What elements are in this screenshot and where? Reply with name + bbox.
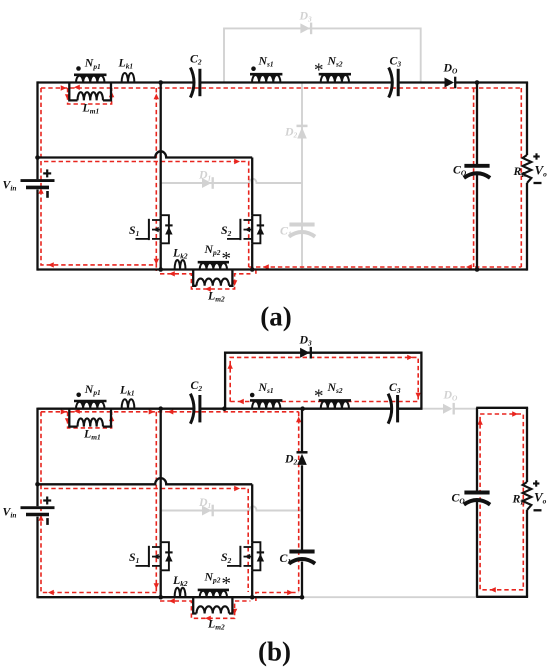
wire RL branch bottom (b): [526, 510, 528, 597]
red arrow right middle (a): [234, 159, 240, 164]
red loop D2 C1 branch (b): [298, 412, 300, 593]
wire Lm1 right leg (a): [103, 83, 111, 101]
wire Lm2 left leg (b): [193, 597, 196, 613]
red arrow left bottom (b): [48, 590, 54, 595]
svg-text:*: *: [314, 386, 324, 407]
red arrow right top (b): [61, 409, 67, 414]
wire C1 bottom (b): [301, 562, 303, 598]
red arrow down D3 box (b): [416, 393, 421, 399]
node Np1 phase dot (a): [76, 66, 81, 71]
red arrow up output (b): [477, 419, 482, 425]
wire gray Do rail (b): [421, 408, 443, 410]
battery Vin (b): [21, 506, 55, 509]
red arrow down Lm2 right (a): [232, 280, 237, 286]
wire gray D1 rail (b): [161, 506, 302, 510]
wire gray bottom rail (b): [303, 596, 476, 598]
wire Lm1 left leg (a): [69, 83, 77, 101]
wire middle rail with hop (b): [38, 478, 253, 484]
red arrow up D2 (b): [296, 417, 301, 423]
resistor RL (b): [523, 482, 532, 510]
wire S2 drain (a): [251, 158, 253, 216]
red arrow down Lm2 right (b): [232, 609, 237, 615]
red arrow up Lm1 (a): [109, 92, 114, 98]
resistor RL (a): [523, 155, 532, 183]
label - output (b): [534, 509, 542, 511]
svg-text:(a): (a): [260, 302, 291, 332]
capacitor C1 (a, inactive): [289, 223, 314, 227]
red arrow left bottom right (a): [263, 264, 269, 269]
svg-text:(b): (b): [258, 637, 291, 667]
red arrow up D3 box (b): [228, 363, 233, 369]
node C1 bottom junction (b): [300, 595, 305, 600]
red loop Lm2 path (a): [160, 274, 250, 289]
wire left branch bottom (a): [36, 190, 38, 271]
red arrow left Co bottom (a): [466, 264, 472, 269]
diode D2 (a, inactive): [297, 125, 308, 128]
red arrow right output (b): [512, 411, 518, 416]
red loop Lm1 box (a): [68, 88, 112, 104]
diode D3 (a, inactive): [300, 23, 310, 33]
wire gray D1 rail (a): [161, 179, 302, 183]
inductor Lk1 (a): [122, 73, 135, 83]
capacitor C2 (b): [190, 394, 194, 424]
wire Co branch bottom (a): [476, 175, 478, 270]
wire Lm2 left leg (a): [193, 270, 196, 286]
wire S1 drain (b): [160, 409, 162, 543]
node Ns1 phase dot (a): [251, 66, 256, 71]
svg-text:*: *: [222, 574, 232, 595]
red arrow into junction left (b): [149, 409, 155, 414]
red arrow left Lm2 (b): [169, 598, 175, 603]
transformer Np2 (a): [198, 261, 229, 264]
red arrow left Lm2 bottom (a): [205, 286, 211, 291]
capacitor C3 (b): [388, 394, 392, 424]
wire Lm1 left leg (b): [69, 409, 77, 427]
red arrow right D3 box (b): [407, 355, 413, 360]
label + output (a): [533, 155, 539, 157]
node Ns1 phase dot (b): [250, 393, 255, 398]
wire gray Do-output (b): [454, 408, 476, 410]
red stub S2 source (b): [256, 593, 299, 602]
wire middle rail with hop (a): [38, 151, 253, 157]
wire D2 branch top (b): [301, 409, 303, 453]
red arrow left output (b): [490, 587, 496, 592]
red loop D3 box (b): [230, 357, 418, 401]
capacitor C2 (a): [190, 68, 194, 98]
red loop S1 branch (b): [155, 412, 157, 593]
red arrow up S1 (a): [154, 94, 159, 100]
red loop RL branch (a): [520, 88, 522, 267]
red loop left branch (b): [41, 412, 156, 593]
node Np1 phase dot (b): [76, 393, 81, 398]
wire D3 box (b): [225, 353, 421, 409]
red arrow left bottom (a): [48, 262, 54, 267]
wire Co branch top (b): [476, 408, 478, 491]
transistor S1 (b): [152, 546, 161, 548]
red loop top rail (b): [41, 411, 299, 413]
red arrow right bottom (b): [287, 590, 293, 595]
node left-middle junction (a): [35, 155, 40, 160]
svg-text:*: *: [314, 60, 324, 81]
wire top rail C2-C3 (a): [201, 81, 391, 83]
wire S1 source (b): [160, 570, 162, 597]
wire S2 source (b): [251, 570, 253, 597]
transformer Ns2 (b): [319, 399, 351, 402]
wire right branch bottom (a): [526, 183, 528, 271]
diode D3 (b): [300, 348, 310, 358]
svg-text:*: *: [222, 249, 232, 270]
node Do-Co junction (a): [475, 80, 480, 85]
inductor Lk2 (b): [175, 588, 186, 598]
red loop output block (b): [480, 414, 523, 590]
node top junction S1 (b): [158, 406, 163, 411]
red loop S1 branch (a): [155, 88, 157, 271]
transformer Ns1 (a): [250, 73, 282, 76]
node left-middle junction (b): [35, 482, 40, 487]
node S2 bottom junction (b): [250, 595, 255, 600]
transformer Ns1 (b): [250, 399, 282, 402]
red arrow left Np1 (b): [74, 408, 80, 413]
diode D2 (b): [297, 451, 308, 454]
wire top rail Do-corner (a): [456, 81, 528, 83]
red arrow left D3 box (b): [238, 399, 244, 404]
node D2 junction (b): [300, 406, 305, 411]
wire S1 drain (a): [160, 83, 162, 216]
wire top rail C3-Do (a): [399, 81, 445, 83]
wire left branch top (a): [36, 81, 38, 179]
red loop Lm2 path (b): [160, 601, 250, 618]
wire right branch top (a): [526, 83, 528, 156]
inductor Lm2 (b): [197, 606, 230, 613]
red loop Co branch (a): [473, 88, 475, 267]
transformer Np1 (a): [74, 74, 107, 77]
red stub S2 source (a): [255, 267, 257, 274]
wire Co branch bottom (b): [476, 501, 478, 597]
wire top rail left (a): [38, 81, 193, 83]
wire S2 source (a): [251, 243, 253, 269]
wire RL branch top (b): [526, 408, 528, 482]
transistor S2 (b): [244, 546, 253, 548]
label - output (a): [534, 182, 542, 184]
red arrow up Lm1 (b): [109, 415, 114, 421]
label + output (b): [533, 482, 539, 484]
red loop middle rail (b): [44, 489, 248, 593]
transformer Ns2 (a): [319, 73, 351, 76]
inductor Lm1 (a): [78, 92, 104, 100]
diode D1 (b, inactive): [202, 506, 212, 516]
red arrow left Lm2 (a): [169, 271, 175, 276]
red arrow up Vin (a): [38, 188, 43, 194]
node S1 bottom junction (b): [158, 595, 163, 600]
diode Do (a): [445, 78, 455, 88]
node top junction S1 (a): [158, 80, 163, 85]
red arrow up Vin (b): [38, 515, 43, 521]
wire Co branch top (a): [476, 83, 478, 165]
inductor Lm1 (b): [78, 418, 104, 426]
wire top rail C2-C3 (b): [201, 408, 391, 410]
capacitor C1 (b): [289, 550, 314, 554]
red arrow right top (a): [61, 85, 67, 90]
red arrow right middle (b): [234, 486, 240, 491]
wire D2-C1 (b): [301, 465, 303, 550]
red loop left branch (a): [41, 88, 156, 265]
wire top rail C3-box (b): [398, 408, 423, 410]
diode D1 (a, inactive): [202, 178, 212, 188]
red arrow down Lm1 (a): [65, 94, 70, 100]
battery Vin (a): [21, 179, 55, 182]
transistor S2 (a): [244, 219, 253, 221]
wire Lm1 right leg (b): [103, 409, 111, 427]
wire S2 drain (b): [251, 484, 253, 542]
red arrow left Np1 (a): [74, 85, 80, 90]
wire top rail left (b): [38, 408, 193, 410]
red loop middle rail (a): [44, 162, 249, 268]
inductor Lm2 (a): [197, 279, 230, 286]
wire Lm2 right leg (b): [229, 597, 232, 613]
red loop Lm1 box (b): [68, 412, 112, 428]
node S2 bottom junction (a): [250, 267, 255, 272]
transformer Np2 (b): [198, 589, 229, 592]
wire S1 source (a): [160, 243, 162, 269]
node S1 bottom junction (a): [158, 267, 163, 272]
inductor Lk1 (b): [122, 399, 135, 409]
wire bottom rail (b): [38, 596, 303, 598]
wire output block top (b): [476, 407, 528, 409]
inductor Lk2 (a): [175, 260, 186, 270]
red arrow down Lm1 (b): [65, 418, 70, 424]
red loop top rail (a): [41, 87, 521, 89]
red arrow left Lm2 bottom (b): [205, 616, 211, 621]
transistor S1 (a): [152, 219, 161, 221]
diode Do (b, inactive): [443, 404, 453, 414]
red arrow into junction right (b): [168, 409, 174, 414]
wire Lm2 right leg (a): [229, 270, 232, 286]
transformer Np1 (b): [74, 400, 107, 403]
red arrow down S1 (b): [154, 583, 159, 589]
red arrow down S1 (a): [154, 259, 159, 265]
wire gray D3 box (a): [224, 28, 421, 82]
capacitor C3 (a): [389, 68, 393, 98]
wire bottom rail (a): [38, 268, 528, 270]
wire left branch top (b): [36, 408, 38, 507]
node box junction (b): [222, 406, 227, 411]
capacitor Co (b): [464, 491, 489, 495]
capacitor Co (a): [464, 164, 489, 168]
node Co bottom junction (a): [475, 267, 480, 272]
wire output block bottom (b): [476, 596, 528, 598]
wire gray D2/C1 branch (a): [301, 83, 303, 270]
wire left branch bottom (b): [36, 517, 38, 599]
red loop bottom rail (a): [249, 266, 522, 268]
